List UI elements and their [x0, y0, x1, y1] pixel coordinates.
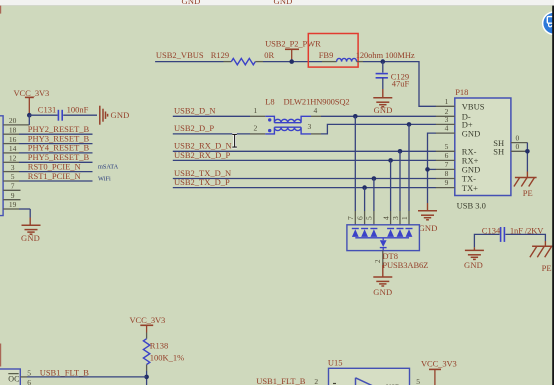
svg-text:OC: OC: [8, 375, 19, 384]
wire junction to pin20: [28, 115, 30, 125]
junction node RX_D_N: [398, 149, 403, 154]
TVS diode element 1: [406, 229, 413, 237]
ground symbol (P18): [418, 211, 437, 220]
svg-text:6: 6: [355, 216, 364, 220]
svg-text:2: 2: [254, 124, 258, 133]
svg-text:4: 4: [381, 216, 390, 220]
TVS diode element 3: [397, 229, 404, 237]
svg-text:USB2_D_P: USB2_D_P: [174, 123, 214, 133]
top toolbar strip: [0, 0, 554, 6]
earth stem (C134 PE): [544, 241, 546, 246]
wire USB2_TX_D_N: [173, 178, 436, 180]
wire USB1_FLT_B: [27, 376, 147, 378]
wire to DT8 pin 3: [391, 151, 400, 225]
svg-text:6: 6: [445, 151, 449, 160]
ground stem (left connector): [29, 218, 31, 225]
junction node RX_D_P: [388, 158, 393, 163]
P18 pin 7 GND: [436, 160, 480, 175]
text cursor I-beam: [232, 134, 237, 147]
svg-text:C134: C134: [482, 226, 501, 236]
ground symbol (C129): [373, 98, 392, 107]
ground stem (P18): [427, 203, 429, 211]
earth stem (PE): [526, 172, 528, 178]
svg-text:VBUS: VBUS: [462, 102, 485, 112]
wire L8 pin3 to P18 pin3 (D+): [321, 124, 436, 133]
svg-text:USB1_FLT_B: USB1_FLT_B: [40, 368, 90, 378]
svg-text:USB 3.0: USB 3.0: [457, 200, 486, 210]
capacitor C131: [58, 110, 62, 121]
wire pin19 to ground: [29, 209, 31, 218]
ground symbol rotated (C131): [100, 106, 108, 125]
floating app button (top right): [542, 11, 554, 35]
pin 19 of left connector: [3, 200, 30, 209]
svg-text:PE: PE: [523, 188, 533, 198]
svg-text:3: 3: [445, 115, 449, 124]
DT8 internal bus: [355, 237, 409, 239]
L8 pin 2: [250, 124, 265, 134]
svg-text:7: 7: [445, 160, 449, 169]
svg-text:100K_1%: 100K_1%: [150, 353, 184, 363]
pin 9 of left connector: [3, 191, 20, 200]
svg-text:3: 3: [11, 163, 15, 172]
junction node TX_D_P: [362, 185, 367, 190]
TVS diode element 4: [387, 229, 394, 237]
svg-text:PUSB3AB6Z: PUSB3AB6Z: [382, 260, 428, 270]
svg-text:GND: GND: [373, 287, 392, 297]
ground symbol (left connector): [22, 225, 41, 234]
wire C134 to PE: [505, 234, 545, 241]
svg-text:TX+: TX+: [462, 183, 478, 193]
svg-text:3: 3: [391, 216, 400, 220]
resistor R138: [143, 333, 149, 372]
svg-text:R138: R138: [150, 340, 168, 350]
svg-text:47uF: 47uF: [392, 79, 410, 89]
wire to DT8 pin 6: [355, 188, 364, 225]
DT8 pin 2: [374, 251, 383, 265]
component body (bottom left, OC): [0, 369, 20, 385]
ground stem (DT8): [382, 265, 384, 277]
svg-text:GND: GND: [374, 105, 393, 115]
ground stem (C129): [382, 89, 384, 98]
junction node SH: [525, 149, 530, 154]
pin 14 of left connector: [3, 144, 92, 153]
wire junction to C131: [29, 114, 57, 116]
P18 pin SH (upper): [493, 133, 527, 147]
svg-text:USB2_VBUS: USB2_VBUS: [156, 50, 204, 60]
P18 pin 1 VBUS: [436, 97, 485, 112]
svg-text:RST1_PCIE_N: RST1_PCIE_N: [28, 171, 81, 181]
svg-text:P18: P18: [455, 87, 468, 97]
ferrite bead FB9: [322, 58, 363, 61]
svg-text:6: 6: [27, 378, 31, 385]
P18 pin SH (lower): [493, 142, 527, 156]
svg-text:VCC_3V3: VCC_3V3: [421, 358, 457, 368]
P18 pin 6 RX+: [436, 151, 479, 166]
svg-text:C131: C131: [38, 105, 56, 115]
L8 pin 1: [250, 106, 265, 116]
junction node pin7 gnd: [425, 167, 430, 172]
TVS diode element 6: [361, 229, 368, 237]
svg-text:GND: GND: [21, 233, 40, 243]
TVS center diode: [380, 238, 387, 251]
buffer U15 body: [329, 368, 410, 385]
wire FB9 to P18 pin1: [363, 62, 436, 107]
ground stem (C134): [473, 247, 475, 250]
svg-text:9: 9: [11, 191, 15, 200]
wire ground to C134: [474, 234, 499, 247]
wire L8 pin4 to P18 pin2 (D-): [321, 115, 436, 117]
connector P18 body: [455, 98, 511, 196]
wire USB2_D_N to L8 pin1: [173, 115, 250, 117]
capacitor C134: [501, 227, 505, 242]
svg-text:GND: GND: [274, 0, 293, 6]
sheet border tick (left top): [0, 6, 1, 14]
svg-text:100nF: 100nF: [67, 105, 89, 115]
wire USB2_RX_D_P: [173, 159, 436, 161]
svg-text:VCC_3V3: VCC_3V3: [130, 315, 166, 325]
svg-text:USB2_TX_D_P: USB2_TX_D_P: [174, 177, 230, 187]
power port VCC_3V3 (U15): [429, 369, 441, 385]
wire to DT8 pin 1: [400, 124, 409, 224]
svg-text:20: 20: [9, 116, 17, 125]
svg-text:18: 18: [9, 125, 17, 134]
earth symbol PE (bottom right): [530, 246, 554, 257]
wire to DT8 pin 4: [381, 160, 390, 224]
svg-text:0R: 0R: [264, 50, 274, 60]
pin 5 of OC component: [20, 369, 31, 378]
pin 3 of left connector: [3, 163, 92, 172]
svg-text:5: 5: [11, 172, 15, 181]
svg-text:DLW21HN900SQ2: DLW21HN900SQ2: [284, 96, 350, 106]
wire C131 to ground: [63, 114, 97, 116]
wire R138 down: [146, 371, 148, 385]
common mode choke L8: [265, 116, 311, 134]
svg-text:19: 19: [9, 200, 17, 209]
wire USB2_VBUS to R129: [155, 61, 223, 63]
svg-text:SH: SH: [493, 147, 504, 157]
svg-text:USB2_D_N: USB2_D_N: [174, 106, 216, 116]
svg-text:4: 4: [314, 106, 318, 115]
sheet border tick (left bottom): [0, 344, 1, 367]
junction node D+ to DT8 pin1: [407, 122, 412, 127]
svg-text:16: 16: [9, 135, 17, 144]
svg-text:2: 2: [374, 259, 382, 263]
svg-text:U15: U15: [328, 357, 343, 367]
P18 pin 3 D+: [436, 115, 473, 130]
svg-text:0: 0: [516, 133, 520, 142]
P18 pin 2 D-: [436, 107, 471, 122]
svg-text:USB1_FLT_B: USB1_FLT_B: [256, 376, 306, 385]
pin 20 of left connector: [3, 116, 29, 125]
svg-text:5: 5: [365, 216, 374, 220]
TVS diode element 5: [370, 229, 377, 237]
svg-text:8: 8: [445, 169, 449, 178]
svg-text:R129: R129: [211, 50, 229, 60]
svg-text:3: 3: [308, 122, 312, 131]
junction node R138/USB1_FLT_B: [144, 375, 149, 380]
svg-text:GND: GND: [182, 0, 201, 6]
power port USB2_P2_PWR: [285, 49, 299, 61]
resistor R129: [224, 58, 264, 64]
wire SH pins join: [526, 143, 528, 172]
capacitor C129: [376, 62, 388, 89]
svg-text:mSATA: mSATA: [98, 164, 119, 171]
connector P? body edge (left): [0, 116, 3, 216]
wire P18 pin4 to ground: [428, 133, 437, 203]
wire to DT8 pin 7: [346, 116, 355, 225]
svg-text:FB9: FB9: [319, 50, 334, 60]
app edge strip (right): [552, 6, 554, 385]
junction node D- to DT8 pin7: [353, 114, 358, 119]
svg-text:GND: GND: [462, 128, 480, 138]
svg-text:9: 9: [445, 178, 449, 187]
wire USB2_RX_D_N: [173, 150, 436, 152]
svg-text:L8: L8: [265, 96, 274, 106]
P18 pin 4 GND: [436, 124, 480, 139]
ground symbol (C134): [465, 250, 484, 259]
junction node P2_PWR: [289, 59, 294, 64]
svg-text:USB2_P2_PWR: USB2_P2_PWR: [265, 39, 321, 49]
wire R129 to FB9: [263, 61, 322, 63]
svg-text:7: 7: [11, 182, 15, 191]
svg-text:GND: GND: [464, 260, 483, 270]
svg-text:7: 7: [346, 216, 355, 220]
svg-text:GND: GND: [111, 110, 130, 120]
pin 18 of left connector: [3, 125, 92, 134]
svg-text:1: 1: [254, 106, 258, 115]
TVS diode element 7: [352, 229, 359, 237]
pin 16 of left connector: [3, 135, 92, 144]
power port VCC_3V3 (top left): [25, 97, 34, 115]
svg-text:1: 1: [445, 97, 449, 106]
junction node TX_D_N: [372, 176, 377, 181]
ground symbol (DT8): [373, 277, 392, 286]
svg-text:5: 5: [416, 377, 420, 385]
P18 pin 8 TX-: [436, 169, 476, 184]
svg-text:VCC_3V3: VCC_3V3: [14, 88, 50, 98]
svg-text:GND: GND: [419, 223, 438, 233]
L8 pin 4: [311, 106, 321, 116]
wire to DT8 pin 5: [365, 179, 374, 225]
wire USB2_TX_D_P: [173, 187, 436, 189]
selection box around FB9: [308, 34, 358, 68]
junction node VCC/C131/pin20: [27, 113, 32, 118]
earth symbol PE (P18 shield): [514, 178, 537, 187]
svg-text:PE: PE: [542, 263, 552, 273]
svg-text:0: 0: [516, 142, 520, 151]
svg-text:12: 12: [9, 154, 17, 163]
svg-text:5: 5: [445, 142, 449, 151]
pin 5 of left connector: [3, 172, 92, 181]
TVS diode array DT8 body: [347, 225, 420, 251]
svg-text:120ohm 100MHz: 120ohm 100MHz: [356, 50, 415, 60]
wire P18 pin7 to ground: [428, 168, 437, 170]
junction node C129: [381, 59, 386, 64]
L8 pin 3: [308, 122, 322, 134]
svg-text:1: 1: [400, 216, 409, 220]
wire USB2_D_P to L8 pin2: [173, 133, 250, 135]
P18 pin 5 RX-: [436, 142, 477, 157]
svg-text:4: 4: [445, 124, 449, 133]
svg-text:WiFi: WiFi: [98, 175, 111, 182]
P18 pin 9 TX+: [436, 178, 478, 193]
svg-text:2: 2: [314, 377, 318, 385]
pin 7 of left connector: [3, 182, 20, 191]
svg-text:14: 14: [9, 144, 17, 153]
pin 12 of left connector: [3, 154, 92, 163]
svg-text:USB2_RX_D_P: USB2_RX_D_P: [174, 150, 230, 160]
power port VCC_3V3 (R138): [140, 325, 153, 332]
